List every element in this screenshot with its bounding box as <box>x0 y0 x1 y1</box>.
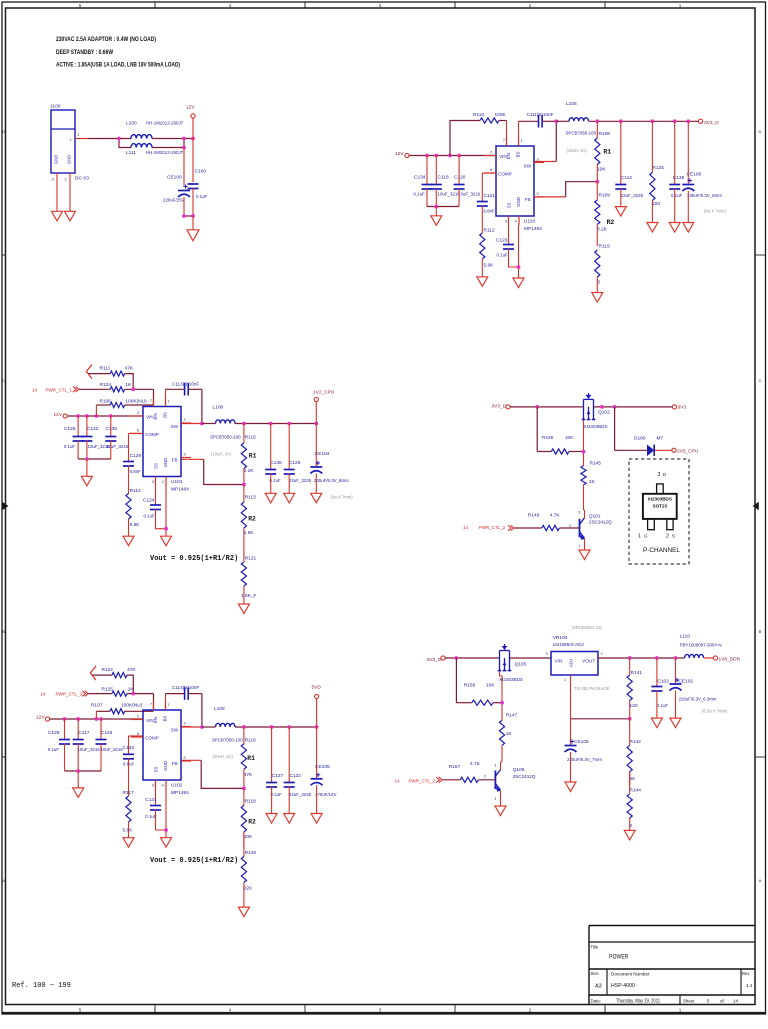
ground U101 feedback divider <box>238 604 249 614</box>
svg-text:Sheet: Sheet <box>683 998 695 1003</box>
svg-text:R106: R106 <box>100 398 112 404</box>
capacitor C135 0.1uF <box>669 121 684 222</box>
svg-text:EN: EN <box>153 717 158 723</box>
capacitor C137 0.1uF <box>266 727 283 814</box>
wire U101 SW node <box>181 389 204 425</box>
svg-text:U102: U102 <box>171 783 183 789</box>
svg-text:XI2303BDS: XI2303BDS <box>499 677 523 682</box>
svg-text:3: 3 <box>658 472 661 478</box>
svg-text:R2: R2 <box>248 819 256 826</box>
svg-text:R115: R115 <box>245 435 256 441</box>
ground U110 feedback divider <box>592 293 603 303</box>
svg-text:FB: FB <box>172 457 178 462</box>
svg-text:10uF_3216: 10uF_3216 <box>106 444 129 449</box>
svg-text:2.2K: 2.2K <box>244 468 255 474</box>
svg-text:2: 2 <box>666 534 669 540</box>
node PWR_CTL_2 mid <box>463 525 514 531</box>
svg-text:5VD: 5VD <box>312 684 322 690</box>
svg-text:Q102: Q102 <box>598 409 610 415</box>
inductor L105 SPCB7050-100 <box>556 101 596 153</box>
svg-text:MP1484: MP1484 <box>171 487 189 493</box>
svg-text:C113(B)10nF: C113(B)10nF <box>172 382 199 387</box>
svg-text:0.1uF: 0.1uF <box>671 193 683 198</box>
svg-text:220uF/6.3V_6.3mm: 220uF/6.3V_6.3mm <box>679 697 717 702</box>
transistor Q105 XI2303BDS P-MOSFET <box>498 644 527 682</box>
svg-text:C121: C121 <box>484 193 496 199</box>
svg-text:L100: L100 <box>126 121 137 127</box>
svg-text:12V: 12V <box>395 151 404 157</box>
resistor R147 1K <box>499 713 517 763</box>
capacitor CE109 220uF/6.3V_7mm <box>565 719 603 782</box>
resistor R119 0 <box>595 244 610 293</box>
svg-text:0: 0 <box>598 279 601 285</box>
note Vout formula U102 <box>150 857 238 865</box>
svg-text:SW: SW <box>171 424 179 429</box>
svg-text:4: 4 <box>162 480 164 484</box>
svg-text:FB: FB <box>525 197 531 202</box>
svg-text:PWR_CTL_3: PWR_CTL_3 <box>56 692 83 697</box>
wire 12V rail to U101 VIN <box>67 414 143 418</box>
resistor R115 2.2K <box>241 424 256 485</box>
svg-text:6.8nF: 6.8nF <box>130 469 142 474</box>
svg-text:SW: SW <box>171 727 179 732</box>
svg-text:R109: R109 <box>599 192 611 198</box>
svg-text:C128: C128 <box>48 730 60 736</box>
capacitor CE105 470uF/10V <box>311 727 337 814</box>
svg-text:1: 1 <box>494 797 496 801</box>
svg-text:C116: C116 <box>438 174 449 180</box>
wire U110 FB route <box>534 180 599 197</box>
note power consumption text <box>56 36 180 69</box>
svg-text:R125: R125 <box>102 686 114 692</box>
wire VR100 ADJ rail <box>571 675 632 721</box>
svg-text:6: 6 <box>137 429 139 433</box>
svg-text:R116: R116 <box>245 738 256 744</box>
svg-text:10uF_3216: 10uF_3216 <box>458 192 481 197</box>
ground C132 <box>284 814 295 824</box>
wire U110 GND pin <box>517 225 521 278</box>
svg-text:PWR_CTL_2: PWR_CTL_2 <box>479 525 506 530</box>
svg-text:Ref. 100 ~ 199: Ref. 100 ~ 199 <box>12 982 71 990</box>
wire 12V rail to U102 VIN <box>50 717 143 721</box>
svg-text:22uF_3225: 22uF_3225 <box>621 193 644 198</box>
ground R144 <box>624 830 635 840</box>
svg-text:J100: J100 <box>50 104 61 110</box>
capacitor C138 10uF_3216 <box>105 416 128 459</box>
resistor R142 56 <box>627 719 641 786</box>
svg-text:0.1uF: 0.1uF <box>144 514 156 519</box>
capacitor C136 0.1uF <box>265 424 282 494</box>
svg-text:7: 7 <box>150 703 152 707</box>
svg-text:R120: R120 <box>245 850 257 856</box>
capacitor C129 6.8nF comp <box>123 433 143 474</box>
svg-text:6: 6 <box>490 168 492 172</box>
svg-text:LM1085IS-ADJ: LM1085IS-ADJ <box>553 642 584 647</box>
capacitor C133 6.8nF comp <box>123 736 144 767</box>
svg-text:3: 3 <box>578 511 580 515</box>
svg-text:4.7K: 4.7K <box>470 761 481 767</box>
svg-text:1K: 1K <box>506 731 513 737</box>
wire VOUT rail <box>598 656 685 660</box>
capacitor C102 0.1uF <box>651 658 669 718</box>
svg-text:R142: R142 <box>630 739 642 745</box>
inductor L108 SPCB7050-100 <box>202 706 243 759</box>
svg-text:ACTIVE : 1.85A(USB 1A LOAD, LN: ACTIVE : 1.85A(USB 1A LOAD, LNB 18V 500m… <box>56 62 180 69</box>
svg-text:GND: GND <box>163 761 168 771</box>
op-amp U110 MP1484 regulator <box>484 137 544 232</box>
svg-text:CE109: CE109 <box>574 739 589 745</box>
ground C112 <box>615 207 626 217</box>
svg-text:2SC2412Q: 2SC2412Q <box>589 520 612 525</box>
capacitor CE100 220uF/25V <box>163 175 190 217</box>
svg-text:C126: C126 <box>64 426 76 432</box>
svg-text:A3: A3 <box>595 984 602 990</box>
ground CE105 <box>311 814 322 824</box>
ground under J100 pin2 <box>65 211 76 221</box>
ground U102 input caps <box>73 788 84 798</box>
ground C125 <box>284 493 295 503</box>
svg-text:0.1uF: 0.1uF <box>414 192 426 197</box>
svg-text:Q101: Q101 <box>589 513 601 519</box>
svg-text:C: C <box>759 378 762 383</box>
svg-text:2V5_CPU: 2V5_CPU <box>677 449 699 455</box>
capacitor C116 10uF_3216 <box>431 156 460 207</box>
svg-text:PWR_CTL_1: PWR_CTL_1 <box>46 387 73 392</box>
svg-text:230VAC 2.5A ADAPTOR : 0.4W (N: 230VAC 2.5A ADAPTOR : 0.4W (NO LOAD) <box>56 36 156 43</box>
svg-text:C124: C124 <box>143 498 155 504</box>
svg-text:C112: C112 <box>621 175 632 181</box>
svg-text:0.1uF: 0.1uF <box>196 194 208 199</box>
svg-text:1V2_CPU: 1V2_CPU <box>313 390 335 396</box>
capacitor C122 10uF_3216 <box>81 416 110 459</box>
svg-text:XI2303BDS: XI2303BDS <box>584 424 608 429</box>
svg-text:1: 1 <box>521 139 523 143</box>
svg-text:6.8nF: 6.8nF <box>484 209 496 214</box>
svg-text:10K: 10K <box>597 167 606 173</box>
svg-text:PWR_CTL_2: PWR_CTL_2 <box>409 778 436 783</box>
svg-text:14: 14 <box>395 778 400 783</box>
svg-text:120: 120 <box>630 703 638 709</box>
svg-text:TO-252 PACKAGE: TO-252 PACKAGE <box>574 686 609 691</box>
svg-text:SW: SW <box>524 163 532 168</box>
capacitor C131 0.1uF soft-start <box>145 789 166 830</box>
svg-text:(10uH, 3A): (10uH, 3A) <box>213 754 234 759</box>
svg-text:C129: C129 <box>130 453 142 459</box>
svg-text:0.1uF: 0.1uF <box>48 747 60 752</box>
transistor Q106 2SC2412Q <box>484 762 536 806</box>
svg-text:3: 3 <box>546 652 548 656</box>
ground under J100 pin3 <box>52 211 63 221</box>
svg-text:2: 2 <box>65 178 67 182</box>
svg-text:12V: 12V <box>186 105 195 111</box>
svg-text:R108: R108 <box>599 131 611 137</box>
svg-text:HSP-4000: HSP-4000 <box>611 983 635 989</box>
svg-text:ADJ: ADJ <box>569 659 574 667</box>
ground CE106 <box>683 223 694 233</box>
svg-text:R118: R118 <box>245 798 256 804</box>
svg-text:10K: 10K <box>244 834 253 840</box>
svg-text:Vout = 0.925(1+R1/R2): Vout = 0.925(1+R1/R2) <box>150 857 238 865</box>
svg-text:SPCB7050-100: SPCB7050-100 <box>210 435 241 440</box>
resistor R145 1K <box>581 460 601 510</box>
capacitor C100 0.1uF <box>188 169 208 217</box>
svg-text:DC-03: DC-03 <box>75 176 89 182</box>
note Ref numbering <box>12 982 71 990</box>
svg-text:U101: U101 <box>171 479 183 485</box>
svg-text:R2: R2 <box>248 516 256 523</box>
resistor R149 4.7K <box>514 513 579 531</box>
svg-text:1: 1 <box>168 400 170 404</box>
svg-text:100K: 100K <box>495 112 507 118</box>
svg-text:47K: 47K <box>244 772 253 778</box>
wire U102 GND pin <box>164 789 168 838</box>
svg-text:MP1484: MP1484 <box>524 226 542 232</box>
svg-text:1V8_DDR: 1V8_DDR <box>719 656 741 662</box>
svg-text:Date:: Date: <box>591 998 602 1003</box>
svg-text:5: 5 <box>184 756 186 760</box>
svg-text:DEEP STANDBY : 0.66W: DEEP STANDBY : 0.66W <box>56 49 113 56</box>
svg-text:7: 7 <box>150 399 152 403</box>
ground R125 <box>647 223 658 233</box>
node PWR_CTL_2 bottom <box>395 777 443 783</box>
resistor R117 5.6K <box>123 758 134 838</box>
capacitor C124 0.1uF soft-start <box>143 486 166 529</box>
power terminal 5VD <box>312 684 322 698</box>
IC U102 MP1484 <box>131 701 191 796</box>
wire U102 SW node <box>181 694 204 729</box>
svg-text:R107: R107 <box>91 703 103 709</box>
svg-text:22uF_3225: 22uF_3225 <box>289 478 312 483</box>
inductor L106 SPCB7050-100 <box>202 404 241 456</box>
transistor Q102 XI2303BDS P-MOSFET <box>582 393 610 429</box>
svg-text:5.6K: 5.6K <box>244 530 255 536</box>
svg-text:470uF/10V: 470uF/10V <box>315 792 337 797</box>
svg-text:10uF_3216: 10uF_3216 <box>101 747 124 752</box>
svg-text:C137: C137 <box>272 773 284 779</box>
svg-text:Title: Title <box>591 945 599 950</box>
power terminal 12V for U101 <box>54 412 68 418</box>
svg-text:Thursday, May 19, 2011: Thursday, May 19, 2011 <box>616 998 660 1004</box>
note Vout formula U101 <box>150 555 238 563</box>
wire U101 GND pin <box>164 486 168 537</box>
svg-text:U110: U110 <box>524 219 535 225</box>
ground R114 <box>123 536 134 546</box>
capacitor C123 0.1uF soft-start <box>496 225 519 267</box>
svg-text:10uF_3216: 10uF_3216 <box>78 747 101 752</box>
resistor R114 5.6K <box>126 465 141 536</box>
svg-text:4.7K: 4.7K <box>550 513 561 519</box>
capacitor C120 10uF_3216 <box>454 156 481 207</box>
svg-text:(10uH, 3A): (10uH, 3A) <box>567 148 588 153</box>
svg-text:1K: 1K <box>589 479 596 485</box>
svg-text:2: 2 <box>137 411 139 415</box>
svg-text:C131: C131 <box>145 797 157 803</box>
power terminal 1V8_DDR <box>713 656 740 663</box>
svg-text:3V3_D: 3V3_D <box>492 404 507 410</box>
svg-text:XI2303BDS: XI2303BDS <box>648 497 672 502</box>
inductor L100 HH-1M2012-260JT <box>126 121 184 139</box>
svg-text:C102: C102 <box>657 678 669 684</box>
svg-text:R121: R121 <box>245 555 257 561</box>
power terminal 3V3_D input <box>492 404 511 410</box>
power terminal 3V3_D for VR100 <box>427 656 446 663</box>
resistor R125 100 <box>650 121 664 222</box>
svg-text:14: 14 <box>463 525 468 530</box>
svg-text:C136: C136 <box>270 460 282 466</box>
resistor R144 2 <box>627 772 641 831</box>
svg-text:EN: EN <box>506 153 511 159</box>
svg-text:B: B <box>2 629 5 634</box>
svg-text:2: 2 <box>484 775 486 779</box>
svg-text:47K: 47K <box>127 667 136 673</box>
svg-text:SPCB7050-100: SPCB7050-100 <box>212 738 243 743</box>
svg-text:BS: BS <box>516 152 521 158</box>
power terminal 12V for U110 <box>395 151 409 158</box>
svg-text:5: 5 <box>537 192 539 196</box>
svg-text:3: 3 <box>184 418 186 422</box>
resistor R124 1K enable <box>79 382 154 407</box>
svg-text:C111(B)10nF: C111(B)10nF <box>527 112 554 117</box>
svg-text:R150: R150 <box>542 435 554 441</box>
capacitor C114 (B)10nF bootstrap <box>166 685 202 710</box>
svg-text:C123: C123 <box>496 238 508 244</box>
ground C102 <box>651 718 662 728</box>
ground R117 <box>123 838 134 848</box>
ground U102 feedback divider <box>238 907 249 917</box>
svg-text:R157: R157 <box>449 764 461 770</box>
resistor R113 5.6K <box>241 485 256 547</box>
ground U110 input caps <box>431 216 442 226</box>
resistor R120 220 <box>241 832 256 907</box>
svg-text:1: 1 <box>578 544 580 548</box>
svg-text:0.1uF: 0.1uF <box>497 253 509 258</box>
wire 1V2_CPU output rail <box>235 402 318 426</box>
inductor L111 HH-1M2012-260JT <box>126 144 184 157</box>
svg-text:L111: L111 <box>126 150 136 156</box>
svg-text:A: A <box>759 878 762 883</box>
svg-text:C122: C122 <box>87 426 99 432</box>
transistor Q101 2SC2412Q <box>569 510 612 550</box>
svg-text:Q105: Q105 <box>515 662 527 668</box>
svg-text:6: 6 <box>137 732 139 736</box>
inductor L110 PBY160808T-300Y-N <box>680 634 722 658</box>
svg-text:8: 8 <box>152 480 154 484</box>
resistor R157 4.7K <box>443 761 496 782</box>
svg-text:R144: R144 <box>630 788 642 794</box>
svg-text:D: D <box>759 129 762 134</box>
svg-text:0.1uF: 0.1uF <box>657 703 669 708</box>
svg-text:4: 4 <box>515 220 517 224</box>
svg-text:2SC2412Q: 2SC2412Q <box>513 774 536 779</box>
svg-text:R125: R125 <box>652 165 664 171</box>
svg-text:3: 3 <box>52 178 54 182</box>
svg-text:C100: C100 <box>195 169 207 175</box>
svg-text:7: 7 <box>503 139 505 143</box>
svg-text:L105: L105 <box>566 101 577 107</box>
svg-text:R110: R110 <box>473 112 484 118</box>
svg-text:1: 1 <box>78 133 80 137</box>
svg-text:G: G <box>644 534 648 539</box>
diode D100 M7 <box>615 407 672 456</box>
svg-text:COMP: COMP <box>145 432 159 437</box>
svg-text:220uF/25V: 220uF/25V <box>163 198 185 203</box>
svg-text:R149: R149 <box>528 513 540 519</box>
svg-text:C119: C119 <box>101 730 112 736</box>
svg-text:D: D <box>663 472 666 477</box>
svg-text:1.5K_F: 1.5K_F <box>241 593 257 599</box>
svg-text:GND: GND <box>163 458 168 468</box>
power terminal 3V3_D <box>698 119 719 126</box>
capacitor C128 0.1uF <box>48 719 70 771</box>
svg-text:R1: R1 <box>247 755 255 762</box>
wire 3V3_D to VR100 VIN <box>445 652 551 660</box>
svg-text:330uF/6.3V_8mm: 330uF/6.3V_8mm <box>314 478 349 483</box>
resistor R121 1.5K_F <box>241 546 257 604</box>
svg-text:CE105: CE105 <box>315 764 330 770</box>
svg-text:R113: R113 <box>245 495 256 501</box>
svg-text:14: 14 <box>32 387 37 392</box>
svg-text:SPCB7050-100: SPCB7050-100 <box>566 131 597 136</box>
svg-text:EN: EN <box>153 413 158 419</box>
svg-text:56: 56 <box>630 776 636 782</box>
wire input caps ground rail U101 <box>78 457 111 476</box>
svg-text:1: 1 <box>564 678 566 682</box>
svg-text:BS: BS <box>163 716 168 722</box>
svg-text:1K: 1K <box>125 382 132 388</box>
svg-text:R119: R119 <box>599 244 610 250</box>
svg-text:(AP1084GG-13): (AP1084GG-13) <box>572 625 603 630</box>
note P-channel package drawing <box>629 459 689 564</box>
wire Q102 gate node <box>582 420 586 465</box>
svg-text:0.1uF: 0.1uF <box>64 444 76 449</box>
resistor R112 5.6K <box>480 205 495 276</box>
wire 12V rail to U110 VIN <box>409 154 496 158</box>
svg-text:SS: SS <box>153 463 158 469</box>
svg-text:GND: GND <box>54 155 59 164</box>
svg-text:C117: C117 <box>78 730 89 736</box>
svg-text:POWER: POWER <box>609 954 629 961</box>
svg-text:10K: 10K <box>486 683 495 689</box>
svg-text:(8o X 7mm): (8o X 7mm) <box>331 495 353 500</box>
svg-text:C125: C125 <box>289 460 301 466</box>
svg-text:CE100: CE100 <box>167 175 182 181</box>
ground C135 <box>669 223 680 233</box>
svg-text:C120: C120 <box>454 174 466 180</box>
capacitor CE104 330uF/6.3V_8mm <box>310 424 353 500</box>
ground C137 <box>266 814 277 824</box>
resistor R107 100K(NU) <box>91 703 154 720</box>
capacitor C113 (B)10nF bootstrap <box>166 382 202 407</box>
svg-text:FB: FB <box>172 761 178 766</box>
svg-text:R112: R112 <box>484 228 495 234</box>
svg-text:R156: R156 <box>464 683 476 689</box>
svg-text:5.6K: 5.6K <box>130 522 141 528</box>
capacitor C117 10uF_3216 <box>73 719 101 771</box>
svg-text:L110: L110 <box>680 634 691 640</box>
svg-text:3V3: 3V3 <box>678 405 687 411</box>
resistor R122 47K with flag <box>90 666 136 694</box>
svg-text:CE104: CE104 <box>315 451 330 457</box>
svg-text:5: 5 <box>184 453 186 457</box>
ground U102 <box>161 838 172 848</box>
svg-text:8: 8 <box>152 784 154 788</box>
resistor R111 47K with flag <box>86 364 134 389</box>
svg-text:SS: SS <box>506 203 511 209</box>
resistor R110 100K <box>450 112 507 156</box>
svg-text:12V: 12V <box>54 412 63 418</box>
svg-text:C132: C132 <box>290 773 302 779</box>
svg-text:47K: 47K <box>125 365 134 371</box>
